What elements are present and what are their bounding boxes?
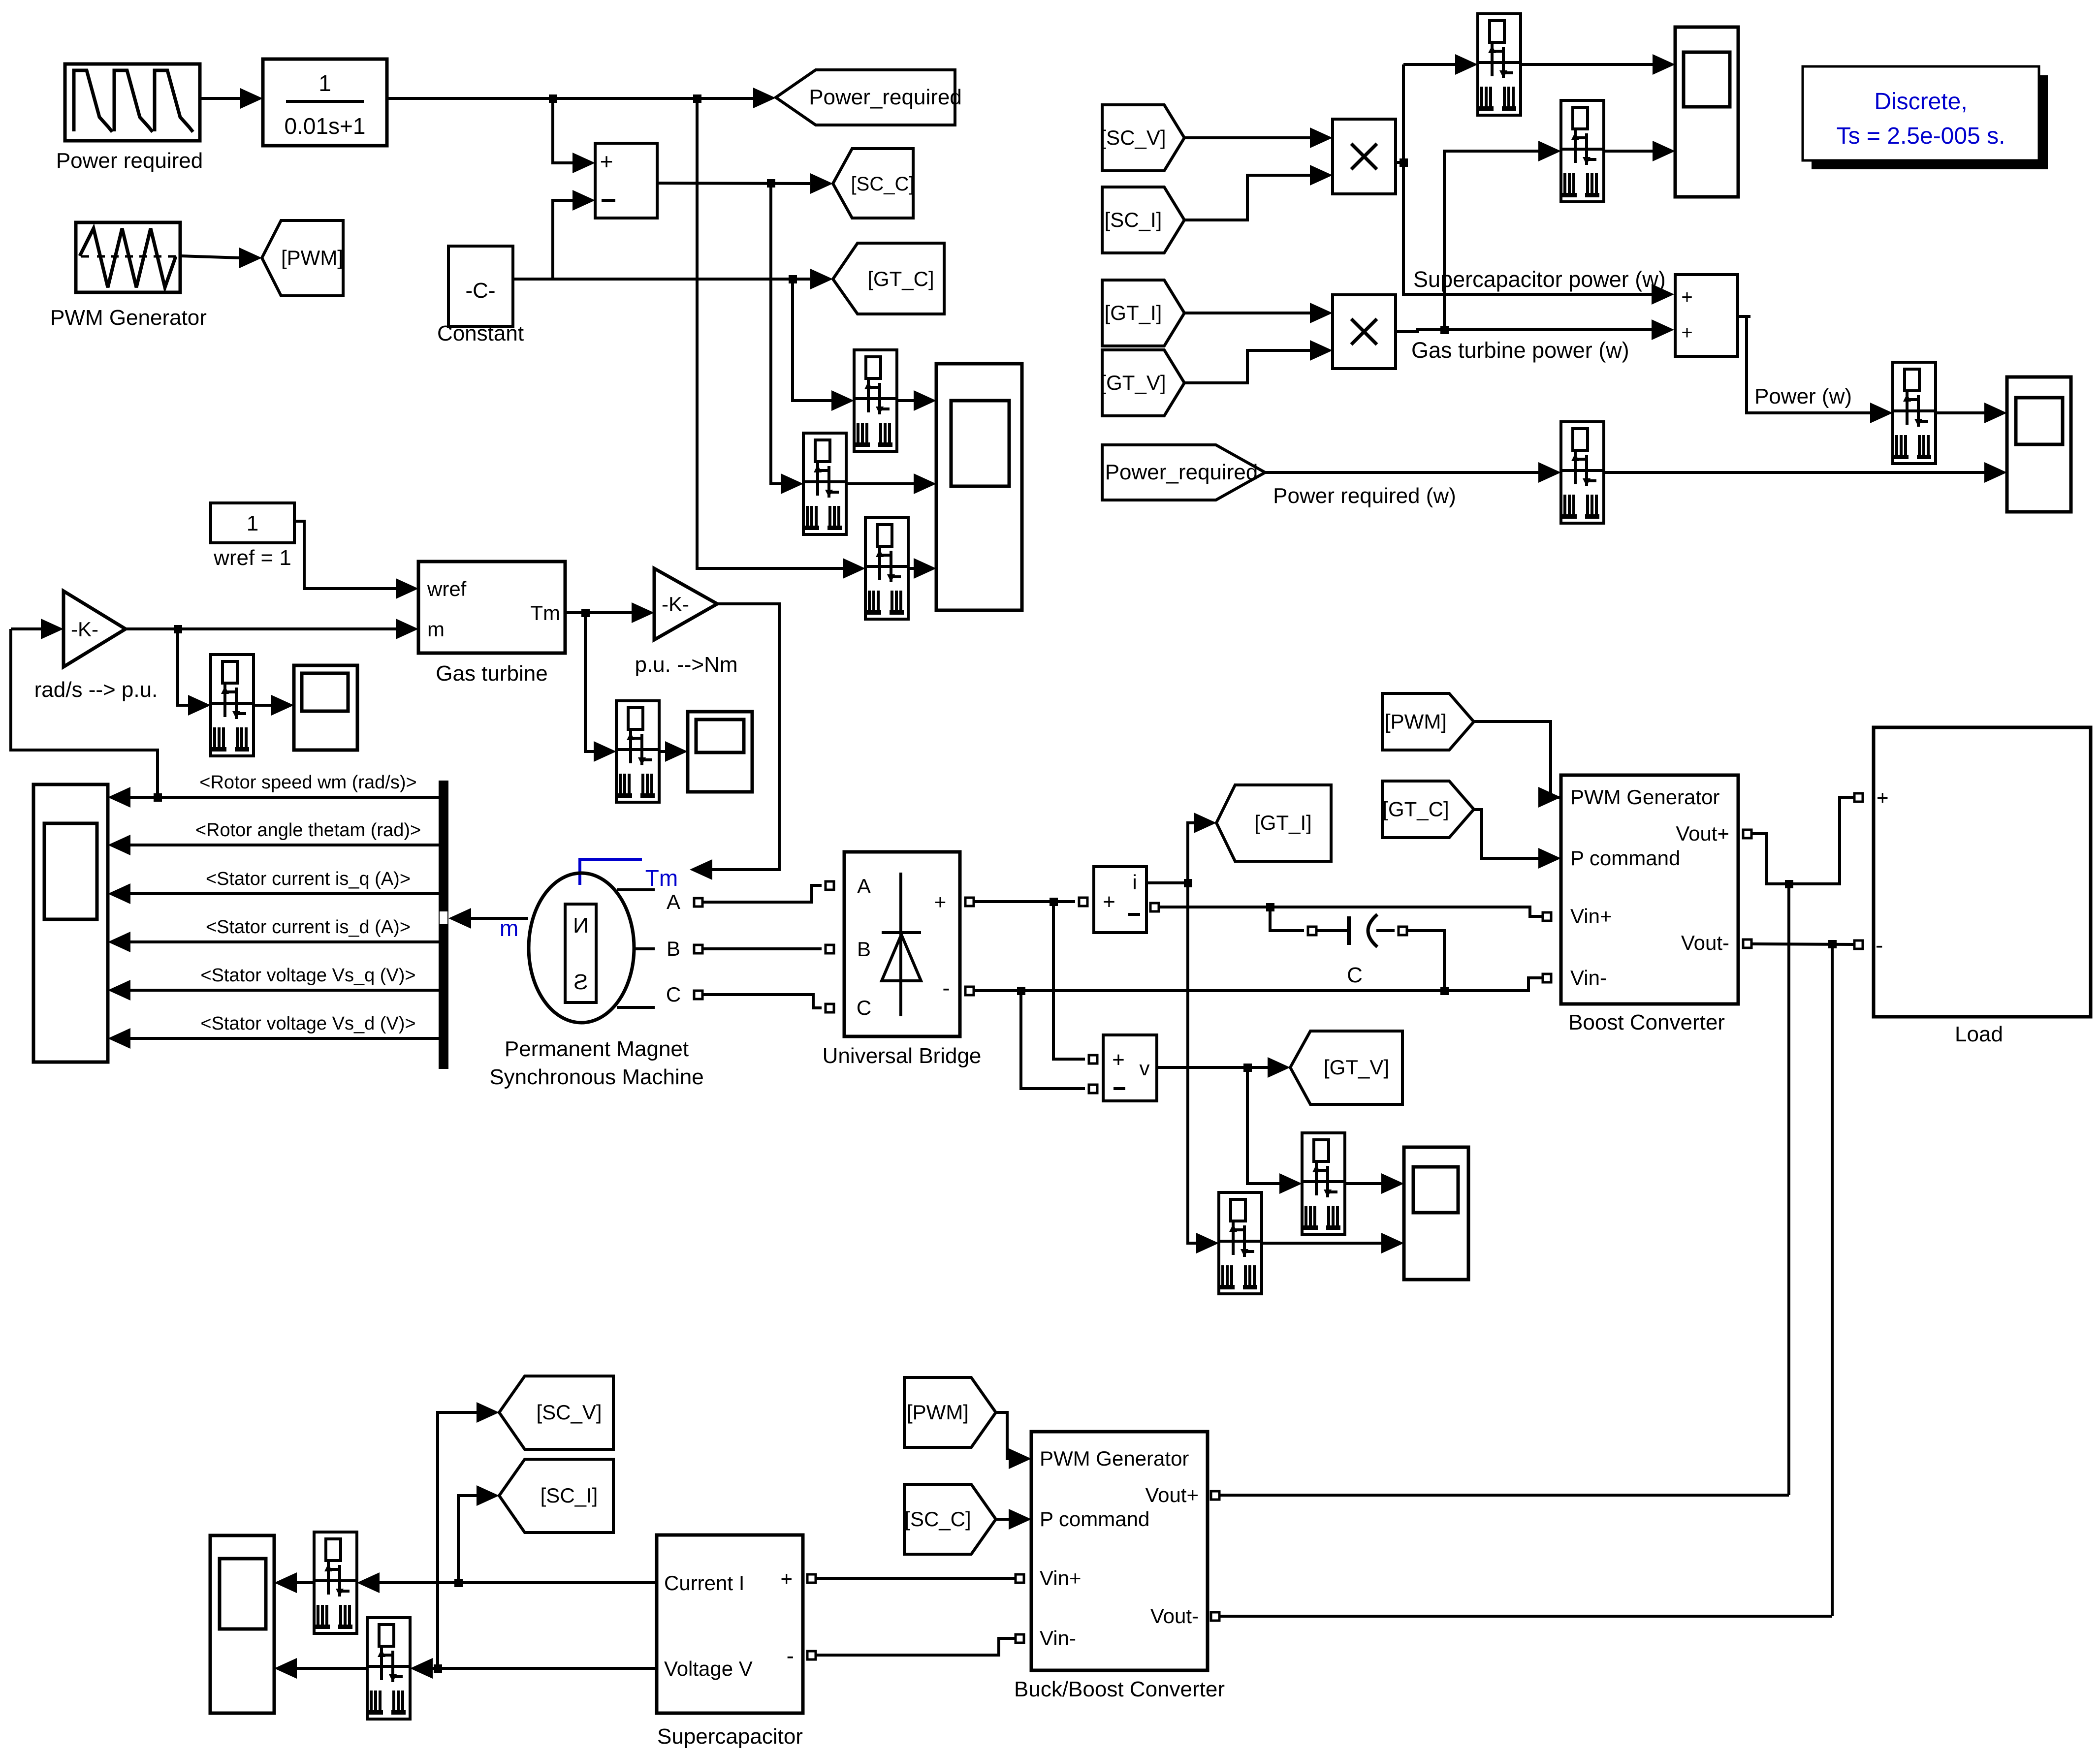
svg-text:Constant: Constant [437,321,524,345]
svg-text:[PWM]: [PWM] [1385,710,1447,733]
svg-text:m: m [427,618,445,641]
svg-text:+: + [1112,1048,1125,1072]
svg-text:N: N [573,913,589,938]
svg-text:+: + [934,890,947,913]
svg-text:C: C [666,983,681,1006]
svg-text:Synchronous Machine: Synchronous Machine [489,1065,703,1089]
svg-text:+: + [600,149,613,174]
svg-text:<Rotor speed wm (rad/s)>: <Rotor speed wm (rad/s)> [199,772,416,793]
svg-text:+: + [1877,786,1889,809]
svg-text:B: B [667,937,680,960]
svg-text:<Stator voltage Vs_d (V)>: <Stator voltage Vs_d (V)> [200,1013,415,1034]
svg-text:Vout-: Vout- [1150,1604,1199,1628]
svg-text:Supercapacitor power (w): Supercapacitor power (w) [1413,267,1666,292]
svg-text:S: S [573,970,588,994]
svg-text:PWM Generator: PWM Generator [1570,785,1719,809]
svg-text:<Stator voltage Vs_q (V)>: <Stator voltage Vs_q (V)> [200,965,415,986]
svg-text:-K-: -K- [71,618,98,641]
svg-text:Vout-: Vout- [1681,931,1729,954]
svg-text:<Stator current is_d (A)>: <Stator current is_d (A)> [206,917,411,938]
svg-text:Load: Load [1955,1022,2003,1046]
svg-text:A: A [857,875,871,898]
svg-text:Power required: Power required [56,149,203,173]
svg-text:[SC_I]: [SC_I] [541,1484,598,1507]
svg-text:Vin+: Vin+ [1570,905,1612,928]
svg-text:Buck/Boost Converter: Buck/Boost Converter [1014,1677,1225,1701]
svg-text:[SC_V]: [SC_V] [1100,126,1166,149]
svg-text:Current I: Current I [664,1571,744,1595]
svg-text:[SC_C]: [SC_C] [851,173,915,195]
svg-text:v: v [1140,1057,1150,1080]
svg-text:Ts = 2.5e-005 s.: Ts = 2.5e-005 s. [1837,123,2005,149]
svg-text:Vout+: Vout+ [1676,822,1729,845]
svg-text:A: A [667,890,680,913]
svg-text:Universal Bridge: Universal Bridge [823,1044,982,1068]
svg-text:-C-: -C- [465,279,495,303]
svg-text:Power (w): Power (w) [1754,384,1852,408]
svg-text:[SC_C]: [SC_C] [904,1507,971,1531]
svg-text:Vin-: Vin- [1570,966,1607,989]
svg-text:P command: P command [1570,846,1680,870]
svg-text:[GT_C]: [GT_C] [867,267,934,290]
svg-text:Power_required: Power_required [809,85,962,109]
svg-text:[PWM]: [PWM] [907,1401,969,1424]
svg-text:Gas turbine power (w): Gas turbine power (w) [1411,338,1629,363]
svg-text:Tm: Tm [645,865,678,891]
svg-text:C: C [1347,963,1363,987]
svg-text:[GT_I]: [GT_I] [1105,301,1162,324]
svg-text:C: C [857,996,871,1019]
svg-text:Discrete,: Discrete, [1874,89,1967,115]
svg-text:m: m [500,915,518,941]
svg-text:<Stator current is_q (A)>: <Stator current is_q (A)> [206,869,411,889]
svg-text:[PWM]: [PWM] [281,246,343,269]
svg-text:PWM Generator: PWM Generator [1040,1447,1189,1470]
svg-text:-K-: -K- [662,593,689,616]
svg-text:i: i [1132,871,1137,894]
svg-text:Vout+: Vout+ [1145,1483,1199,1506]
svg-text:+: + [1681,286,1692,308]
svg-text:Vin+: Vin+ [1040,1566,1081,1590]
svg-text:Permanent Magnet: Permanent Magnet [505,1037,689,1061]
svg-text:0.01s+1: 0.01s+1 [285,113,366,139]
svg-text:+: + [1103,890,1115,914]
svg-text:1: 1 [318,70,331,96]
svg-text:[GT_V]: [GT_V] [1100,371,1166,394]
svg-text:wref: wref [427,577,467,600]
svg-text:[GT_C]: [GT_C] [1382,798,1449,821]
svg-text:Boost Converter: Boost Converter [1568,1010,1725,1034]
svg-text:Vin-: Vin- [1040,1627,1076,1650]
svg-text:-: - [942,975,950,1001]
svg-text:Voltage V: Voltage V [664,1657,753,1680]
svg-text:[GT_V]: [GT_V] [1324,1056,1389,1079]
svg-text:-: - [1876,932,1883,958]
svg-text:[GT_I]: [GT_I] [1254,811,1312,834]
svg-text:Gas turbine: Gas turbine [436,661,547,686]
svg-text:+: + [780,1567,793,1590]
svg-text:Power_required: Power_required [1105,460,1258,484]
svg-text:PWM Generator: PWM Generator [50,306,207,330]
svg-text:Power required (w): Power required (w) [1273,484,1456,508]
svg-text:1: 1 [247,511,258,535]
svg-text:-: - [787,1643,794,1668]
svg-text:Tm: Tm [530,601,560,625]
svg-text:p.u. -->Nm: p.u. -->Nm [635,653,737,677]
svg-text:[SC_V]: [SC_V] [536,1401,602,1424]
svg-text:rad/s --> p.u.: rad/s --> p.u. [34,678,158,702]
svg-text:[SC_I]: [SC_I] [1105,208,1162,231]
svg-text:Supercapacitor: Supercapacitor [657,1724,803,1749]
svg-text:+: + [1681,322,1692,344]
svg-text:wref = 1: wref = 1 [213,546,291,570]
svg-text:<Rotor angle thetam (rad)>: <Rotor angle thetam (rad)> [195,820,421,841]
svg-text:P command: P command [1040,1507,1149,1531]
svg-text:B: B [857,938,871,961]
